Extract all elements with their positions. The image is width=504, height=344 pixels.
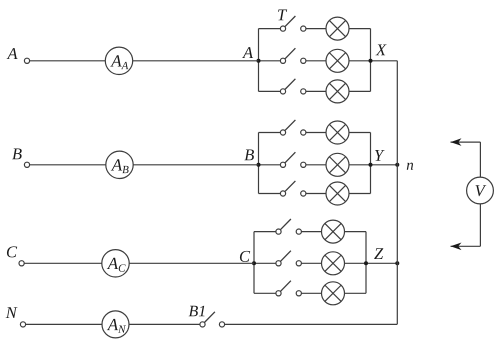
svg-text:n: n <box>406 158 414 174</box>
svg-text:A: A <box>6 44 18 63</box>
svg-text:C: C <box>239 247 251 266</box>
svg-text:B: B <box>244 145 254 164</box>
svg-text:B: B <box>12 144 22 163</box>
svg-text:N: N <box>5 303 18 322</box>
svg-text:A: A <box>242 43 254 62</box>
svg-text:B1: B1 <box>188 303 206 320</box>
svg-text:X: X <box>375 40 387 59</box>
svg-text:Z: Z <box>374 244 384 263</box>
svg-text:Y: Y <box>374 146 385 165</box>
svg-text:T: T <box>277 5 288 24</box>
svg-text:C: C <box>6 242 18 261</box>
